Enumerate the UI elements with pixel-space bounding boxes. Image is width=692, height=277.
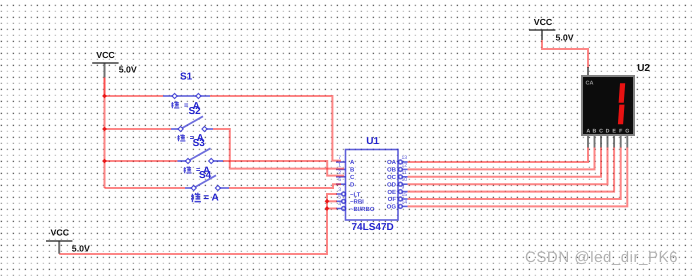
svg-text:E: E [612, 129, 616, 135]
svg-text:U2: U2 [637, 63, 650, 74]
svg-text:6: 6 [338, 177, 341, 183]
svg-text:D: D [606, 129, 610, 135]
svg-text:S2: S2 [189, 106, 202, 117]
svg-text:OF: OF [388, 196, 397, 203]
svg-text:D: D [350, 181, 355, 188]
svg-text:B: B [350, 167, 355, 174]
svg-text:~LT: ~LT [350, 191, 361, 198]
svg-text:74LS47D: 74LS47D [352, 222, 394, 233]
svg-text:C: C [350, 174, 355, 181]
svg-text:OB: OB [387, 167, 397, 174]
svg-text:OE: OE [387, 189, 396, 196]
svg-text:12: 12 [402, 162, 408, 168]
svg-text:11: 11 [402, 170, 407, 176]
svg-text:15: 15 [402, 192, 408, 198]
svg-text:OC: OC [387, 174, 397, 181]
svg-text:=: = [203, 193, 209, 204]
svg-text:OG: OG [387, 204, 397, 211]
svg-text:VCC: VCC [96, 50, 115, 60]
svg-text:10: 10 [402, 177, 408, 183]
svg-text:CA: CA [586, 81, 594, 87]
svg-text:A: A [212, 193, 219, 204]
svg-text:VCC: VCC [51, 228, 70, 238]
svg-text:5: 5 [338, 194, 341, 200]
svg-text:CSDN @led_dir_PK6: CSDN @led_dir_PK6 [525, 249, 678, 266]
svg-text:S4: S4 [199, 170, 212, 181]
svg-text:13: 13 [402, 155, 408, 161]
svg-text:G: G [625, 129, 629, 135]
svg-text:1: 1 [338, 162, 341, 168]
svg-text:C: C [599, 129, 603, 135]
svg-text:5.0V: 5.0V [119, 65, 137, 75]
svg-text:3: 3 [338, 187, 341, 193]
svg-text:5.0V: 5.0V [556, 32, 574, 42]
svg-text:5.0V: 5.0V [72, 243, 90, 253]
svg-text:B: B [592, 129, 596, 135]
svg-text:A: A [586, 129, 590, 135]
svg-text:OD: OD [387, 181, 397, 188]
svg-text:OA: OA [387, 159, 397, 166]
svg-text:A: A [350, 159, 355, 166]
svg-text:4: 4 [338, 202, 341, 208]
svg-text:9: 9 [402, 185, 405, 191]
svg-text:VCC: VCC [534, 17, 553, 27]
svg-text:14: 14 [402, 199, 408, 205]
svg-text:U1: U1 [366, 136, 379, 147]
svg-text:~RBI: ~RBI [350, 199, 364, 206]
svg-text:~BI/RBO: ~BI/RBO [350, 206, 375, 213]
svg-text:S3: S3 [193, 138, 206, 149]
svg-text:S1: S1 [180, 71, 193, 82]
